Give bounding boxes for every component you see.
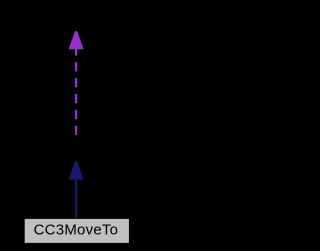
svg-text:CC3MoveTo: CC3MoveTo (34, 221, 118, 238)
wire: dashed template-relation edge (darkorchid) (75, 46, 77, 135)
wire: solid inheritance edge (midnightblue) (75, 176, 77, 219)
node CC3MoveTo (current class box) (24, 218, 129, 243)
arrowhead of solid blue edge (69, 161, 83, 179)
arrowhead of dashed purple edge (69, 31, 83, 49)
